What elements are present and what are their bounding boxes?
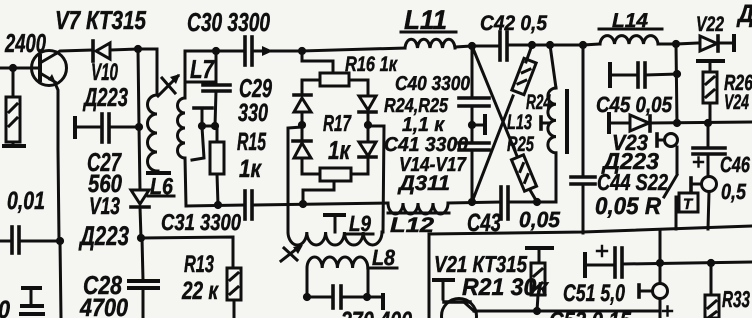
- node C44 top: [579, 41, 587, 49]
- variable arrow L6-L7: [158, 76, 178, 96]
- node V22: [672, 40, 680, 48]
- C44 column: [582, 45, 585, 176]
- label R17: [323, 110, 352, 136]
- label L12 overline: [388, 212, 449, 215]
- wire C46 to connector: [707, 154, 710, 176]
- inductor L7: [178, 98, 185, 158]
- label L11: [404, 5, 447, 35]
- capacitor under L8: [307, 296, 332, 299]
- vertical V22 node to V23: [676, 44, 677, 123]
- svg-text:С46: С46: [720, 152, 751, 177]
- wire to L6: [138, 49, 157, 95]
- underline L11: [401, 31, 456, 34]
- tap bar T on L7: [194, 106, 212, 110]
- svg-text:0,01: 0,01: [7, 187, 45, 215]
- wire base input: [0, 67, 31, 70]
- label R21 30k: [462, 274, 550, 301]
- inductor L13: [550, 45, 556, 88]
- label R15: [237, 128, 267, 156]
- diode V13: [131, 190, 149, 204]
- diode V17 (down): [367, 125, 370, 141]
- wire L14 to node: [658, 43, 676, 46]
- label 4700: [79, 294, 128, 318]
- diode V14 (up): [294, 93, 311, 97]
- label D223 second: [78, 221, 129, 251]
- node diag B bottom: [468, 198, 476, 206]
- base terminal V21: [434, 278, 453, 282]
- svg-text:R13: R13: [184, 251, 214, 278]
- resistor R15: [210, 142, 224, 174]
- label R24: [526, 91, 551, 114]
- label 0,01: [7, 187, 45, 215]
- bus left segment: [186, 205, 244, 206]
- node base: [9, 64, 17, 72]
- svg-text:С44 S22: С44 S22: [597, 169, 668, 195]
- variable arrow L9-L8: [281, 247, 299, 261]
- inductor L9: [288, 232, 382, 245]
- label 370 400 clipped: [341, 307, 412, 318]
- label L13: [507, 111, 532, 134]
- svg-text:L7: L7: [190, 54, 215, 84]
- wire right mid jog down: [368, 126, 384, 232]
- wire switch to bus: [675, 197, 678, 229]
- label R24,R25: [384, 95, 449, 117]
- label C52 0,15 clipped: [549, 307, 632, 318]
- node C30 left: [212, 47, 220, 55]
- diode V15 (down): [359, 96, 376, 110]
- label 0,5: [721, 179, 747, 204]
- bus mid segment: [253, 203, 388, 205]
- arrow on wire: [262, 46, 273, 56]
- capacitor C46: [707, 123, 710, 147]
- resistor R33: [710, 263, 713, 295]
- wire L11 to node: [455, 46, 472, 47]
- svg-text:V24: V24: [724, 91, 749, 114]
- label D clipped top right: [736, 0, 752, 28]
- label L14: [612, 10, 648, 32]
- svg-text:С51 5,0: С51 5,0: [563, 280, 625, 307]
- T box: [679, 193, 698, 212]
- svg-text:4700: 4700: [79, 294, 128, 318]
- capacitor C30: [216, 50, 244, 53]
- tap link: [202, 125, 215, 128]
- label 0 clipped: [0, 296, 10, 318]
- svg-text:0: 0: [0, 296, 10, 318]
- label 2400: [4, 28, 46, 58]
- node diag A bottom: [533, 198, 541, 206]
- transistor V21: [442, 299, 477, 318]
- emitter wire down: [55, 83, 59, 240]
- connector plug C46: [689, 178, 693, 191]
- label C42 0,5: [480, 12, 547, 35]
- svg-text:1к: 1к: [328, 135, 351, 165]
- svg-text:R33: R33: [722, 286, 750, 312]
- label 0,05 C43: [519, 207, 561, 232]
- node x660: [656, 259, 664, 267]
- label 22k: [181, 277, 219, 305]
- inductor L11: [405, 39, 455, 48]
- svg-text:1к: 1к: [239, 155, 262, 183]
- wire emitter down to edge: [60, 241, 61, 318]
- wire left mid jog down: [288, 127, 302, 232]
- svg-text:L8: L8: [372, 245, 396, 270]
- wire to L11: [302, 48, 405, 51]
- terminal bar R26: [698, 59, 723, 63]
- switch S22 lever: [664, 175, 677, 197]
- label C41 3300: [384, 134, 468, 156]
- plus C51: [597, 246, 607, 256]
- svg-text:1,1 к: 1,1 к: [402, 114, 445, 136]
- svg-text:22 к: 22 к: [181, 277, 219, 305]
- wire to R13: [141, 237, 233, 268]
- underline L9: [346, 233, 373, 236]
- node C45: [673, 70, 681, 78]
- node left mid: [298, 121, 306, 129]
- label R13: [184, 251, 214, 278]
- label L6: [150, 173, 173, 199]
- plus bottom: [663, 307, 672, 316]
- label 330: [238, 99, 268, 127]
- node carrier: [298, 47, 306, 55]
- tap to coil: [192, 127, 204, 160]
- svg-text:0,5: 0,5: [721, 179, 747, 204]
- node C40 top: [468, 42, 476, 50]
- terminal bar right of L8: [368, 296, 382, 299]
- node R15 on bus: [214, 201, 222, 209]
- svg-text:0,05 R: 0,05 R: [595, 193, 662, 220]
- L8 left leg: [306, 268, 309, 297]
- L9 center tap: [334, 216, 337, 232]
- node right mid: [364, 121, 372, 129]
- node emitter junction: [56, 237, 64, 245]
- label L7: [190, 54, 215, 84]
- ground stub mid: [472, 124, 483, 127]
- potentiometer R16: [320, 73, 349, 86]
- label V24: [724, 91, 749, 114]
- svg-text:L9: L9: [349, 211, 372, 236]
- wire down to R: [12, 68, 15, 97]
- capacitor C44: [571, 175, 595, 179]
- svg-text:R17: R17: [323, 110, 352, 136]
- diode V10: [91, 41, 95, 61]
- ground bar L6: [157, 171, 160, 172]
- svg-text:С41 3300: С41 3300: [384, 134, 468, 156]
- svg-text:V13: V13: [89, 193, 120, 220]
- label C46: [720, 152, 751, 177]
- node L8 right: [363, 293, 371, 301]
- node L13 top: [546, 41, 554, 49]
- resistor 2400: [6, 97, 20, 142]
- svg-text:Д: Д: [736, 0, 752, 28]
- svg-text:R16 1к: R16 1к: [345, 53, 398, 76]
- capacitor C45: [608, 64, 612, 86]
- svg-text:С40 3300: С40 3300: [395, 73, 470, 95]
- ground bar under resistor: [12, 142, 15, 145]
- resistor R21: [531, 263, 545, 295]
- underline L14: [599, 28, 662, 31]
- label V10: [91, 59, 118, 86]
- diagonal A with R25: [472, 46, 517, 156]
- node R21 bottom: [533, 307, 541, 315]
- R16 wiper feed: [302, 51, 333, 73]
- connector plug S22: [655, 134, 659, 146]
- svg-text:R25: R25: [507, 133, 534, 156]
- svg-text:R15: R15: [237, 128, 267, 156]
- diode V23: [607, 114, 611, 132]
- bus right segment: [448, 202, 500, 203]
- label C43: [467, 209, 501, 237]
- capacitor C42: [472, 45, 499, 48]
- label C44 S22: [597, 169, 668, 195]
- capacitor 0,01: [0, 240, 11, 243]
- block frame left: [428, 234, 431, 318]
- label C27: [87, 147, 122, 177]
- label L9: [349, 211, 372, 236]
- label D223 V23: [601, 148, 659, 174]
- capacitor C41: [471, 125, 474, 142]
- label C30 3300: [187, 7, 270, 37]
- resistor R24 tilted: [512, 58, 536, 94]
- potentiometer R17: [320, 168, 351, 181]
- underline L7: [188, 81, 216, 84]
- diode V16 (up): [301, 125, 304, 140]
- label 560: [88, 170, 122, 198]
- capacitor C40: [471, 46, 474, 97]
- label R33: [722, 286, 750, 312]
- capacitor C51: [583, 254, 587, 276]
- wire collector to diode: [57, 50, 91, 53]
- wire to C44 node: [550, 44, 583, 47]
- node C46 column: [704, 119, 712, 127]
- resistor R25 tilted: [511, 155, 536, 191]
- inductor L6: [148, 95, 158, 171]
- label L12: [390, 214, 434, 237]
- capacitor C29: [215, 51, 218, 84]
- node bottom left column: [137, 234, 145, 242]
- underline L8: [369, 267, 397, 270]
- L7 left line: [184, 51, 187, 98]
- label R16 1k: [345, 53, 398, 76]
- capacitor C28: [142, 238, 143, 280]
- svg-text:С52 0,15: С52 0,15: [549, 307, 632, 318]
- wire node down: [138, 49, 139, 127]
- label C31 3300: [161, 209, 241, 235]
- inductor L12: [388, 203, 448, 214]
- label 1k R15: [239, 155, 262, 183]
- label V13: [89, 193, 120, 220]
- capacitor C43: [499, 187, 503, 219]
- block frame top / bus: [429, 226, 752, 234]
- svg-text:С30 3300: С30 3300: [187, 7, 270, 37]
- node top: [134, 45, 142, 53]
- terminal bar R21: [527, 246, 552, 250]
- capacitor bottom-left with ground: [23, 286, 40, 290]
- capacitor C31: [243, 191, 247, 219]
- tap bar L13: [543, 122, 548, 125]
- label V23: [612, 130, 648, 155]
- node S22 column: [673, 119, 681, 127]
- svg-text:Д311: Д311: [397, 172, 450, 195]
- svg-text:С31 3300: С31 3300: [161, 209, 241, 235]
- svg-text:330: 330: [238, 99, 268, 127]
- svg-text:V22: V22: [696, 13, 724, 36]
- vertical x660: [659, 231, 662, 284]
- svg-text:L13: L13: [507, 111, 532, 134]
- resistor R26: [703, 72, 717, 103]
- diode V22: [676, 43, 699, 44]
- label C51 5,0: [563, 280, 625, 307]
- label L8: [372, 245, 396, 270]
- wire diode to node: [111, 49, 138, 50]
- node L8 left: [303, 293, 311, 301]
- wire R16 right arm: [349, 80, 368, 96]
- collector wire: [474, 310, 660, 313]
- svg-text:С42 0,5: С42 0,5: [480, 12, 547, 35]
- node wiper on bus: [299, 200, 307, 208]
- label R25: [507, 133, 534, 156]
- label C40 3300: [395, 73, 470, 95]
- terminal bar after V22: [732, 36, 736, 50]
- transistor V7: [32, 51, 67, 86]
- L7 line to bus: [185, 158, 186, 206]
- svg-text:V7 КТ315: V7 КТ315: [55, 5, 146, 35]
- connector plug bottom: [637, 285, 641, 297]
- label D223: [83, 82, 129, 112]
- R17 wiper: [303, 181, 334, 204]
- label C45 0,05: [596, 92, 673, 117]
- inductor L14: [600, 36, 658, 44]
- diagonal B with R24: [526, 45, 532, 62]
- L8 right leg: [367, 268, 370, 297]
- wire below connector: [676, 147, 679, 174]
- plus C46: [694, 158, 703, 167]
- svg-text:0,05: 0,05: [519, 207, 561, 232]
- svg-text:Д223: Д223: [78, 221, 129, 251]
- label C29: [239, 73, 272, 103]
- node R33: [707, 259, 715, 267]
- L7 top wire: [185, 50, 216, 53]
- wire to L14: [583, 44, 600, 45]
- label V22: [696, 13, 724, 36]
- svg-text:370 400: 370 400: [341, 307, 412, 318]
- wire V13 to node: [140, 207, 141, 238]
- wire to diode V13: [139, 127, 140, 190]
- core bar L13: [565, 91, 569, 152]
- label V14-V17: [399, 154, 467, 176]
- label 1k R17: [328, 135, 351, 165]
- node between C40 C41: [468, 121, 476, 129]
- node diag B top: [528, 41, 536, 49]
- resistor R13: [227, 268, 241, 300]
- node C27: [135, 123, 143, 131]
- wire R16 left arm: [302, 80, 320, 94]
- inductor L8: [307, 257, 368, 268]
- underline L6: [148, 195, 174, 198]
- label C28: [83, 270, 122, 300]
- label 0,05 R: [595, 193, 662, 220]
- svg-text:Д223: Д223: [83, 82, 129, 112]
- label V7 KT315: [55, 5, 146, 35]
- capacitor C27: [73, 118, 77, 137]
- label R26: [724, 70, 752, 95]
- label 1,1k: [402, 114, 445, 136]
- label V21 KT315: [434, 251, 528, 277]
- label D311: [397, 172, 450, 195]
